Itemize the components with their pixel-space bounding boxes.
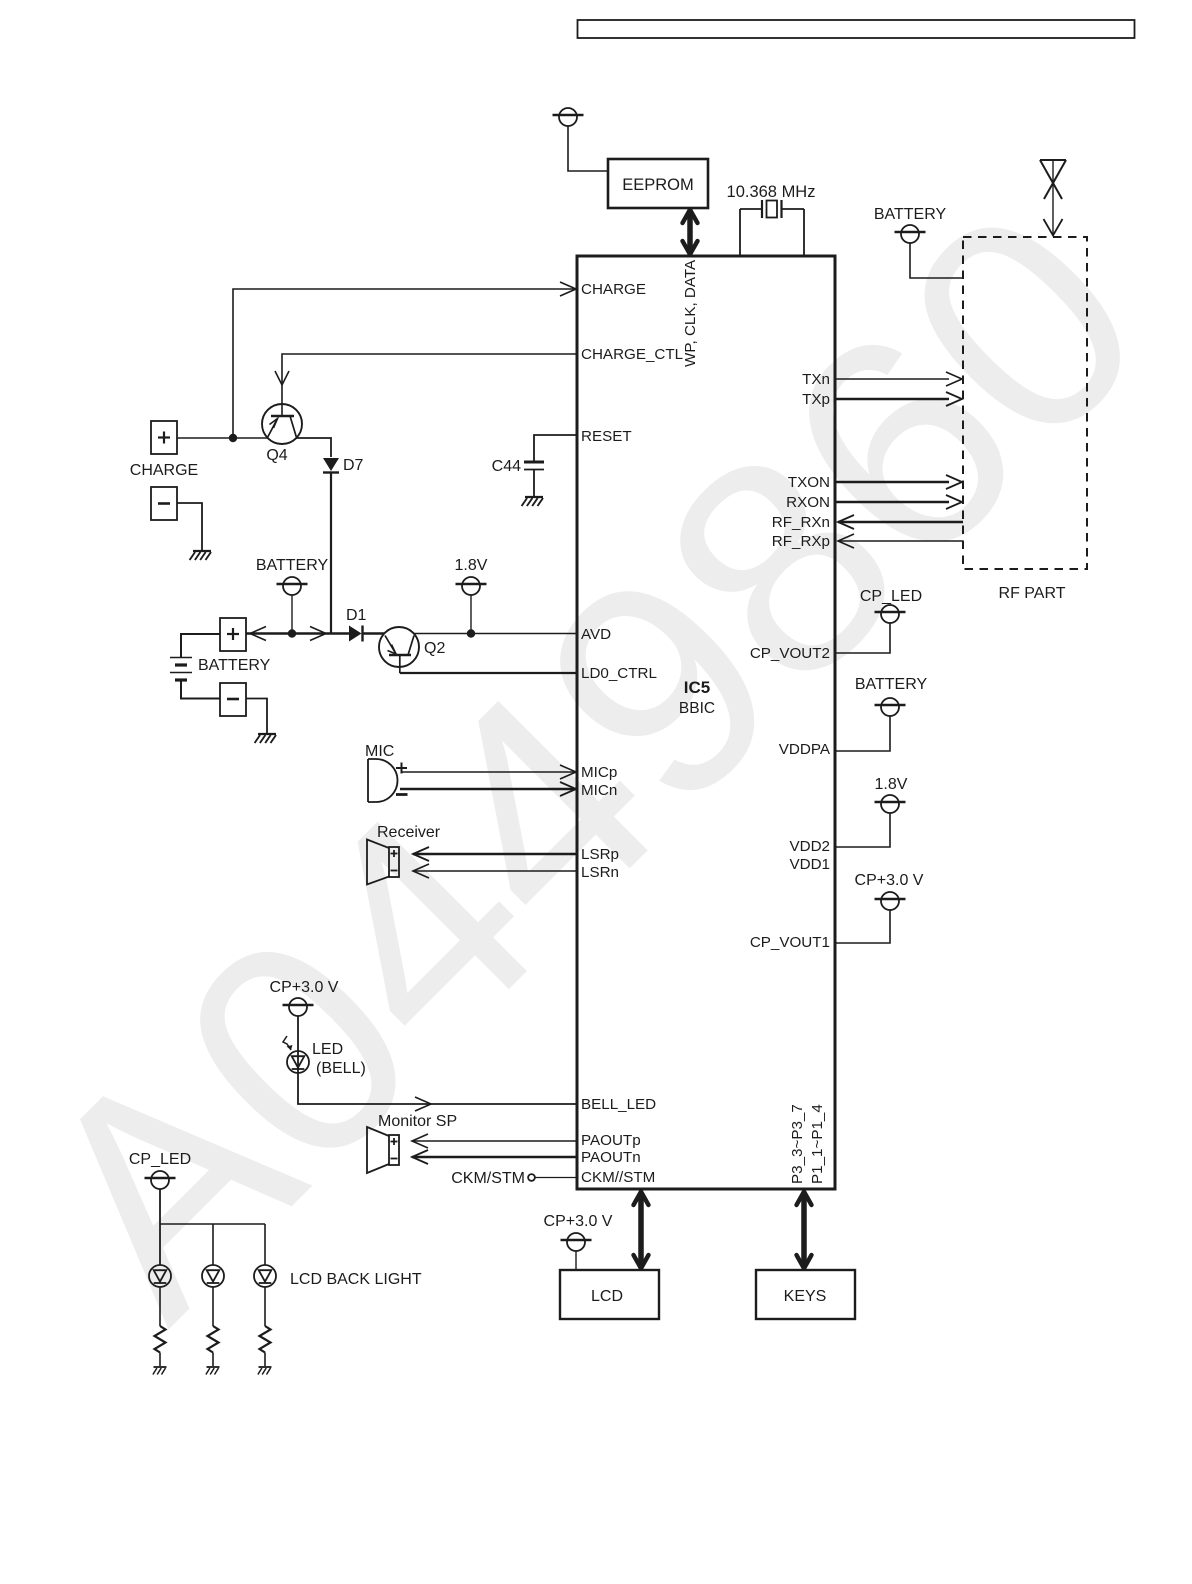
wire RXON bbox=[836, 501, 949, 504]
wire RF_RXp bbox=[838, 540, 963, 542]
wire LSRp bbox=[413, 853, 577, 856]
block KEYS bbox=[756, 1270, 855, 1319]
wire D7 to battery rail bbox=[330, 473, 332, 634]
node CKM/STM bbox=[528, 1174, 535, 1181]
ground bbox=[206, 1367, 220, 1375]
svg-text:CP_VOUT2: CP_VOUT2 bbox=[750, 645, 830, 662]
ground bbox=[153, 1367, 167, 1375]
svg-text:PAOUTn: PAOUTn bbox=[581, 1149, 641, 1166]
wire LSRn bbox=[413, 870, 577, 872]
svg-text:Receiver: Receiver bbox=[377, 824, 441, 841]
svg-text:CHARGE_CTL: CHARGE_CTL bbox=[581, 346, 683, 363]
svg-text:VDDPA: VDDPA bbox=[779, 741, 831, 758]
arrowhead BELL_LED bbox=[415, 1097, 431, 1111]
power symbol CP+3.0V right bbox=[875, 892, 906, 910]
svg-text:TXON: TXON bbox=[788, 474, 830, 491]
wire battery stem bbox=[291, 595, 293, 634]
arrowhead RXON bbox=[946, 495, 962, 509]
svg-text:RF_RXp: RF_RXp bbox=[772, 533, 830, 550]
arrowhead CHARGE bbox=[560, 282, 576, 296]
wire R2 to ground bbox=[212, 1353, 214, 1367]
arrowhead CHARGE_CTL down bbox=[275, 371, 289, 385]
wire LCD supply bbox=[575, 1251, 577, 1270]
svg-text:MIC: MIC bbox=[365, 743, 394, 760]
connector CHARGE minus box bbox=[151, 487, 177, 520]
arrowhead MICp bbox=[560, 765, 576, 779]
wire Q2 base to LD0_CTRL bbox=[400, 672, 577, 674]
wire backlight bus bbox=[160, 1223, 265, 1225]
power symbol CP+3.0V bell bbox=[283, 998, 314, 1016]
svg-text:CP_VOUT1: CP_VOUT1 bbox=[750, 934, 830, 951]
svg-text:Monitor SP: Monitor SP bbox=[378, 1113, 457, 1130]
crystal X1 10.368 MHz bbox=[727, 183, 816, 218]
capacitor C44 bbox=[492, 458, 544, 475]
wire CHARGE to IC5 bbox=[233, 289, 576, 438]
svg-text:KEYS: KEYS bbox=[784, 1288, 827, 1305]
arrowhead TXp bbox=[946, 392, 962, 406]
bus arrow EEPROM-IC5 bbox=[683, 210, 698, 254]
pin labels right side bbox=[750, 371, 831, 951]
arrowhead MICn bbox=[560, 782, 576, 796]
diode D1 bbox=[346, 607, 367, 642]
svg-text:MICp: MICp bbox=[581, 764, 617, 781]
transistor Q4 bbox=[262, 404, 302, 444]
ground bbox=[258, 1367, 272, 1375]
power symbol (EEPROM supply) bbox=[553, 108, 584, 126]
svg-text:P1_1~P1_4: P1_1~P1_4 bbox=[809, 1104, 826, 1184]
svg-text:CP+3.0 V: CP+3.0 V bbox=[855, 872, 924, 889]
svg-text:RF_RXn: RF_RXn bbox=[772, 514, 830, 531]
arrowhead LSRn bbox=[413, 864, 429, 878]
svg-text:PAOUTp: PAOUTp bbox=[581, 1132, 641, 1149]
svg-text:BELL_LED: BELL_LED bbox=[581, 1096, 656, 1113]
arrowhead TXON bbox=[946, 475, 962, 489]
wire led1 to R1 bbox=[159, 1288, 161, 1327]
wire TXp bbox=[836, 398, 949, 401]
svg-text:CP_LED: CP_LED bbox=[129, 1151, 191, 1168]
wire C44 to ground bbox=[533, 470, 535, 496]
svg-text:CHARGE: CHARGE bbox=[130, 462, 198, 479]
LED backlight 2 bbox=[202, 1265, 224, 1287]
svg-text:RXON: RXON bbox=[786, 494, 830, 511]
power symbol BATTERY rail bbox=[277, 577, 308, 595]
power symbol CP_LED right bbox=[875, 605, 906, 623]
wire Q4 to D7 bbox=[297, 438, 332, 457]
svg-text:P3_3~P3_7: P3_3~P3_7 bbox=[789, 1104, 806, 1184]
wire power to EEPROM bbox=[568, 126, 608, 171]
svg-text:10.368 MHz: 10.368 MHz bbox=[727, 183, 816, 201]
wire battery cell to minus box bbox=[181, 681, 220, 699]
power symbol 1.8V right bbox=[875, 795, 906, 813]
svg-text:CP_LED: CP_LED bbox=[860, 588, 922, 605]
wire crystal left leg bbox=[739, 209, 741, 256]
svg-text:AVD: AVD bbox=[581, 626, 611, 643]
arrowhead RF_RXp bbox=[838, 534, 854, 548]
svg-text:BATTERY: BATTERY bbox=[198, 657, 271, 674]
wire CHARGE minus to ground bbox=[177, 503, 202, 550]
wire R3 to ground bbox=[264, 1353, 266, 1367]
svg-text:LSRn: LSRn bbox=[581, 864, 619, 881]
power symbol BATTERY RF bbox=[895, 225, 926, 243]
battery BT1 bbox=[170, 658, 192, 681]
ground bbox=[190, 551, 211, 560]
wire CP_VOUT2 bbox=[836, 623, 890, 653]
block LCD bbox=[560, 1270, 659, 1319]
connector CHARGE plus box bbox=[151, 421, 177, 454]
svg-text:LSRp: LSRp bbox=[581, 846, 619, 863]
power symbol BATTERY right bbox=[875, 698, 906, 716]
wire CHARGE_CTL bbox=[282, 354, 577, 416]
transistor Q2 bbox=[379, 627, 419, 673]
node junction bbox=[467, 629, 475, 637]
svg-text:BBIC: BBIC bbox=[679, 700, 715, 717]
wire MICn bbox=[400, 788, 576, 791]
wire RF_RXn bbox=[838, 521, 963, 524]
power symbol 1.8V bbox=[456, 577, 487, 595]
svg-text:LCD BACK LIGHT: LCD BACK LIGHT bbox=[290, 1271, 422, 1288]
svg-text:1.8V: 1.8V bbox=[455, 557, 488, 574]
arrowhead RF_RXn bbox=[838, 515, 854, 529]
arrowhead TXn bbox=[946, 372, 962, 386]
svg-text:CKM/STM: CKM/STM bbox=[451, 1170, 525, 1187]
wire crystal right leg bbox=[803, 209, 805, 256]
speaker Monitor SP bbox=[367, 1113, 457, 1173]
svg-text:MICn: MICn bbox=[581, 782, 617, 799]
LED backlight 1 bbox=[149, 1265, 171, 1287]
wire TXON bbox=[836, 481, 949, 484]
wire battery to RF part bbox=[910, 243, 963, 278]
wire TXn bbox=[836, 378, 949, 380]
wire Q2 to AVD bbox=[414, 633, 577, 635]
wire CKM to IC bbox=[535, 1177, 577, 1179]
resistor R (backlight 1) bbox=[155, 1326, 166, 1353]
ground bbox=[255, 734, 276, 743]
svg-text:(BELL): (BELL) bbox=[316, 1060, 366, 1077]
svg-text:LD0_CTRL: LD0_CTRL bbox=[581, 665, 657, 682]
svg-text:1.8V: 1.8V bbox=[875, 776, 908, 793]
wire VDDPA bbox=[836, 716, 890, 751]
svg-text:WP, CLK, DATA: WP, CLK, DATA bbox=[682, 259, 699, 367]
wire CP_VOUT1 bbox=[836, 910, 890, 943]
svg-text:TXp: TXp bbox=[802, 391, 830, 408]
ground bbox=[522, 497, 543, 506]
wire plus box to battery cell bbox=[181, 634, 220, 657]
connector BATTERY minus box bbox=[220, 683, 246, 716]
node junction bbox=[229, 434, 237, 442]
svg-text:EEPROM: EEPROM bbox=[622, 176, 694, 194]
wire D1 to Q2 bbox=[363, 632, 384, 634]
arrowhead toward D1 bbox=[310, 627, 326, 641]
bus arrow IC5-LCD bbox=[634, 1192, 649, 1268]
LED backlight 3 bbox=[254, 1265, 276, 1287]
svg-text:CP+3.0 V: CP+3.0 V bbox=[270, 979, 339, 996]
bus arrow IC5-KEYS bbox=[797, 1192, 812, 1268]
wire main battery rail bbox=[246, 632, 349, 634]
light arrow bbox=[283, 1036, 293, 1050]
arrowhead LSRp bbox=[413, 847, 429, 861]
wire PAOUTp bbox=[412, 1140, 577, 1142]
wire CHARGE plus to Q4 bbox=[177, 437, 268, 439]
svg-text:CHARGE: CHARGE bbox=[581, 281, 646, 298]
svg-text:VDD2: VDD2 bbox=[789, 838, 830, 855]
svg-text:D1: D1 bbox=[346, 607, 367, 624]
wire bell led bbox=[298, 1016, 577, 1104]
wire R1 to ground bbox=[159, 1353, 161, 1367]
svg-text:Q4: Q4 bbox=[266, 447, 287, 464]
arrowhead toward plus box bbox=[250, 627, 266, 641]
svg-text:VDD1: VDD1 bbox=[789, 856, 830, 873]
wire led3 to R3 bbox=[264, 1288, 266, 1327]
op IC5 BBIC bbox=[577, 256, 835, 1189]
node junction bbox=[288, 629, 296, 637]
wire PAOUTn bbox=[412, 1156, 577, 1159]
connector BATTERY plus box bbox=[220, 618, 246, 651]
arrowhead PAOUTp bbox=[412, 1134, 428, 1148]
power symbol CP+3.0V LCD bbox=[561, 1233, 592, 1251]
pin labels left side bbox=[581, 281, 683, 1186]
svg-text:LED: LED bbox=[312, 1041, 343, 1058]
wire RESET bbox=[534, 435, 577, 461]
title box bbox=[578, 20, 1135, 38]
wire led2 to R2 bbox=[212, 1288, 214, 1327]
svg-text:LCD: LCD bbox=[591, 1288, 623, 1305]
wire backlight feed bbox=[159, 1189, 161, 1265]
EEPROM U2 bbox=[608, 159, 708, 208]
svg-text:CKM//STM: CKM//STM bbox=[581, 1169, 655, 1186]
svg-text:BATTERY: BATTERY bbox=[855, 676, 928, 693]
wire drop 3 bbox=[264, 1224, 266, 1265]
svg-text:BATTERY: BATTERY bbox=[256, 557, 329, 574]
LED (BELL) bbox=[287, 1051, 309, 1073]
antenna ANT bbox=[1040, 160, 1066, 236]
RF PART dashed box bbox=[963, 237, 1087, 569]
diode D7 bbox=[323, 457, 364, 474]
resistor R (backlight 2) bbox=[208, 1326, 219, 1353]
wire minus box to ground bbox=[246, 699, 267, 734]
svg-text:RF PART: RF PART bbox=[999, 585, 1066, 602]
svg-text:TXn: TXn bbox=[802, 371, 830, 388]
wire MICp bbox=[402, 771, 576, 773]
wire 1.8V stem bbox=[470, 595, 472, 634]
wire VDD2 bbox=[836, 813, 890, 847]
speaker Receiver bbox=[367, 824, 441, 885]
svg-text:D7: D7 bbox=[343, 457, 364, 474]
svg-text:BATTERY: BATTERY bbox=[874, 206, 947, 223]
svg-text:RESET: RESET bbox=[581, 428, 632, 445]
resistor R (backlight 3) bbox=[260, 1326, 271, 1353]
svg-text:IC5: IC5 bbox=[684, 678, 710, 697]
microphone MIC bbox=[365, 743, 408, 802]
power symbol CP_LED left bbox=[145, 1171, 176, 1189]
svg-text:Q2: Q2 bbox=[424, 640, 445, 657]
svg-text:CP+3.0 V: CP+3.0 V bbox=[544, 1213, 613, 1230]
svg-text:C44: C44 bbox=[492, 458, 521, 475]
arrowhead PAOUTn bbox=[412, 1150, 428, 1164]
wire drop 2 bbox=[212, 1224, 214, 1265]
